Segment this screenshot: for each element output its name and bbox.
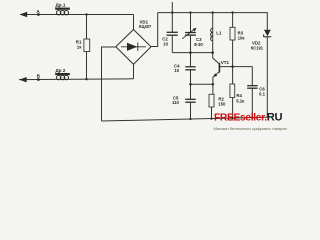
transistor VT1 base bar — [218, 63, 220, 73]
variable capacitor C3 — [185, 33, 196, 36]
C3 arrow — [182, 29, 194, 39]
wire: collector elbow from tank node to VT1 — [213, 53, 220, 64]
resistor R4 — [230, 84, 235, 98]
wire: line B horizontal — [19, 78, 134, 81]
wire: C6 top lead — [251, 67, 253, 86]
svg-text:110: 110 — [172, 100, 180, 105]
junction dot C4/C5 left — [189, 83, 192, 86]
svg-text:КЦ407: КЦ407 — [139, 24, 152, 29]
junction dot tank rail C3/C4 — [189, 51, 192, 54]
svg-text:L1: L1 — [216, 31, 222, 36]
node B dot — [37, 78, 40, 81]
wire: C3 top lead — [190, 13, 192, 33]
junction dot tank rail L1 — [211, 51, 214, 54]
svg-text:10к: 10к — [238, 35, 246, 40]
wire: C4 top lead — [190, 53, 192, 67]
inductor Dr2 coils — [57, 75, 69, 79]
capacitor C5 — [185, 99, 195, 102]
svg-text:150: 150 — [218, 102, 226, 107]
wire: base rail to R3 R4 C6 — [219, 66, 252, 68]
capacitor C4 — [185, 67, 195, 70]
wire: R3 bottom lead — [232, 40, 234, 67]
wire: C1 stub above bus — [171, 2, 173, 13]
wire: R1 top lead — [86, 15, 88, 40]
svg-text:5.1к: 5.1к — [236, 98, 245, 103]
bridge rectifier VD1 diamond — [116, 30, 151, 65]
junction dots on top bus — [171, 11, 173, 13]
inductor Dr2 core bar — [55, 73, 70, 75]
wire: tank rail — [172, 52, 212, 54]
svg-text:Магазин бесплатных цифровых то: Магазин бесплатных цифровых товаров — [214, 126, 287, 131]
svg-text:Др 2: Др 2 — [56, 68, 66, 73]
wire: VD2 bottom lead — [266, 37, 268, 118]
svg-text:VT1: VT1 — [221, 60, 230, 65]
wire: R1 bottom lead — [86, 52, 88, 80]
wire: C3 bottom lead — [190, 35, 192, 53]
wire: line A horizontal — [20, 14, 134, 16]
junction dot R1 bottom — [85, 78, 87, 80]
wire: C6 bottom lead — [251, 88, 253, 118]
svg-text:10: 10 — [174, 68, 179, 73]
wire: R4 top lead — [232, 67, 234, 84]
bridge VD1 inner diode — [121, 43, 146, 52]
wire: C2 bottom lead — [171, 35, 173, 52]
wire: B line elbow up to bridge bottom — [133, 64, 135, 79]
inductor L1 coils — [211, 28, 213, 41]
resistor R1 — [84, 39, 90, 52]
capacitor C2 — [167, 32, 178, 35]
wire: bottom minus bus — [102, 117, 268, 121]
junction dot coupling right — [212, 83, 215, 86]
zener diode VD2 — [264, 30, 271, 36]
arrow terminal A — [20, 12, 28, 17]
inductor Dr1 coils — [57, 11, 69, 15]
svg-text:1к: 1к — [77, 44, 82, 49]
svg-text:Др.1: Др.1 — [56, 2, 66, 7]
junction dots on bottom bus — [189, 118, 191, 120]
inductor Dr1 core bar — [55, 8, 70, 10]
wire: coupling C4/C5 junction to emitter column — [191, 83, 213, 85]
svg-text:10: 10 — [163, 41, 168, 46]
wire: bridge left corner to minus bus — [102, 47, 116, 121]
svg-text:0.1: 0.1 — [259, 91, 266, 96]
svg-text:A: A — [36, 9, 40, 15]
svg-text:КС191: КС191 — [251, 45, 264, 50]
capacitor C6 — [247, 86, 257, 89]
arrow terminal B — [19, 77, 27, 82]
wire: C5 top lead — [190, 84, 192, 99]
resistor R2 — [209, 94, 214, 107]
transistor VT1 emitter arrowhead — [213, 73, 217, 77]
wire: C2 top lead — [171, 13, 173, 33]
wire: C4 bottom lead — [190, 70, 192, 85]
wire: C5 bottom lead — [190, 102, 192, 119]
wire: R4 bottom lead — [232, 98, 234, 119]
svg-text:8-30: 8-30 — [194, 42, 203, 47]
svg-text:FREEseller.RU: FREEseller.RU — [214, 112, 283, 124]
wire: bridge right corner up to plus bus — [151, 13, 158, 47]
wire: emitter column down to R2 — [212, 77, 214, 94]
junction dot base rail R3/R4 — [231, 65, 234, 68]
wire: A line elbow down to bridge top — [133, 15, 135, 31]
resistor R3 — [230, 27, 235, 40]
wire: R2 bottom lead — [211, 107, 213, 119]
wire: top plus bus — [158, 13, 268, 30]
node A dot — [37, 13, 40, 16]
junction dot R1 top — [85, 13, 87, 15]
wire: R3 top lead — [232, 13, 234, 28]
wire: VT1 emitter diagonal — [213, 72, 219, 77]
wire: L1 column — [212, 13, 214, 53]
